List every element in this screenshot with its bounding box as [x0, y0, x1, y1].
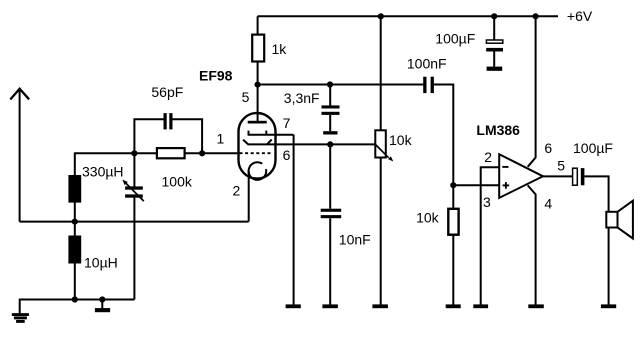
tube V1 cathode (pin 2) [249, 162, 267, 180]
op-amp U1 LM386 pin2 wire [481, 167, 500, 304]
potentiometer R3 bottom lead [380, 158, 382, 305]
wire: speaker to ground [608, 228, 610, 305]
wire: 100k to tube grid pin1 [185, 152, 240, 154]
capacitor C5 100nF plates [423, 77, 426, 93]
ground terminal bar (C4) [322, 304, 338, 308]
svg-text:2: 2 [233, 182, 241, 198]
svg-text:100µF: 100µF [435, 31, 475, 47]
wire: anode node horizontal y=84 [258, 84, 424, 86]
wire: output pin5 [543, 175, 572, 177]
wire: cathode tail down and to tap [248, 171, 250, 222]
op-amp U1 LM386 triangle [499, 154, 543, 198]
svg-text:100µF: 100µF [573, 140, 613, 156]
svg-text:10k: 10k [389, 132, 413, 148]
svg-text:EF98: EF98 [199, 68, 233, 84]
svg-text:330µH: 330µH [82, 163, 124, 179]
antenna [10, 89, 29, 222]
svg-text:6: 6 [283, 147, 291, 163]
svg-text:1k: 1k [272, 41, 288, 57]
junction dot: +input node [450, 182, 456, 188]
junction dot: anode node [255, 82, 261, 88]
junction dot: L2 bottom [72, 296, 78, 302]
wire: pin 7 down to ground bar [293, 135, 295, 305]
svg-text:100nF: 100nF [407, 56, 447, 72]
svg-text:5: 5 [242, 89, 250, 105]
wire: tank top rail y=153 [75, 152, 157, 154]
tube V1 grid g2 (pin 7) [248, 131, 294, 135]
tube V1 grid g1 (pin 1, dashed) [240, 152, 273, 154]
junction dot: C2 right / grid wire [199, 150, 205, 156]
variable capacitor C1 bottom lead to ground bus [133, 198, 135, 300]
svg-text:5: 5 [557, 158, 565, 174]
variable capacitor C1 arrow [125, 182, 144, 201]
op-amp pin6 lead from rail [528, 16, 536, 167]
resistor R4 10k [452, 185, 454, 209]
svg-text:2: 2 [484, 149, 492, 165]
svg-text:+6V: +6V [567, 8, 593, 24]
capacitor C6 100µF (supply) [493, 16, 495, 40]
svg-text:6: 6 [544, 140, 552, 156]
ground terminal bar (C6) [487, 67, 503, 71]
svg-text:LM386: LM386 [476, 122, 520, 138]
junction dot: rail / pin6 [533, 13, 539, 19]
junction dot: ground stub [99, 296, 105, 302]
capacitor C2 56pF plates [164, 113, 167, 129]
inductor L1 330µH [68, 175, 81, 203]
ground symbol (left, 3-bar) [12, 299, 29, 322]
wire: +input to triangle [453, 184, 499, 186]
potentiometer R3 body [375, 130, 386, 157]
svg-text:3: 3 [483, 194, 491, 210]
junction dot: tank top / C1 / C2 [131, 150, 137, 156]
inductor L2 10µH [68, 236, 81, 264]
variable capacitor C1 plates [125, 186, 143, 189]
ground terminal bar (speaker) [601, 304, 616, 308]
tube V1 envelope [239, 113, 276, 179]
svg-text:1: 1 [217, 130, 225, 146]
svg-text:4: 4 [544, 195, 552, 211]
capacitor C3 3,3nF [329, 85, 331, 106]
capacitor C2 56pF loop wires [134, 119, 163, 153]
ground terminal bar (R3) [372, 304, 388, 308]
junction dot: pin6 wire / C4 [327, 141, 333, 147]
tube V1 anode: top cap lead [257, 85, 259, 122]
svg-text:10k: 10k [416, 210, 440, 226]
svg-text:10nF: 10nF [339, 231, 371, 247]
junction dot: coil tap [72, 219, 78, 225]
ground terminal bar (pin4) [528, 304, 544, 308]
ground terminal bar (mid-left) [101, 300, 103, 309]
ground terminal bar (C3) [323, 131, 337, 134]
ground terminal bar (pin 7) [286, 304, 301, 308]
variable capacitor C1 top lead [133, 153, 135, 186]
wire: antenna to coil tap and cathode (y=220.3) [20, 221, 249, 223]
op-amp pin4 lead to ground [528, 185, 536, 304]
svg-text:7: 7 [283, 115, 291, 131]
wire: +6V top rail [258, 15, 558, 17]
capacitor C4 10nF [329, 144, 331, 208]
svg-text:56pF: 56pF [151, 84, 183, 100]
svg-text:10µH: 10µH [84, 254, 118, 270]
op-amp minus sign [502, 166, 508, 168]
svg-text:3,3nF: 3,3nF [284, 90, 320, 106]
resistor R2 1k [257, 16, 259, 34]
potentiometer R3 wiper arrow [375, 144, 388, 157]
potentiometer R3 10k: top feed from rail [380, 16, 382, 130]
wire: C5 to LM386 +input [434, 85, 454, 186]
junction dot: rail / R3 [378, 13, 384, 19]
tube V1 anode plate [248, 121, 267, 124]
junction dot: C3 top [327, 81, 333, 87]
wire: bottom ground bus y=299 [20, 299, 135, 301]
capacitor C7 100µF (output) [573, 168, 578, 185]
ground terminal bar (pin2) [473, 304, 488, 308]
wire: L1 to L2 [74, 202, 76, 235]
tube V1 grid g3 (pin 6) with hooks [243, 140, 375, 145]
speaker LS1 [606, 212, 617, 228]
ground terminal bar (R4) [446, 304, 461, 308]
resistor R1 100k [157, 148, 185, 158]
svg-text:100k: 100k [162, 174, 193, 190]
wire: C7 to speaker [584, 176, 608, 212]
wire: L2 to ground bus [74, 263, 76, 299]
wire: left drop to L1 [74, 152, 76, 175]
op-amp plus sign [503, 184, 510, 186]
